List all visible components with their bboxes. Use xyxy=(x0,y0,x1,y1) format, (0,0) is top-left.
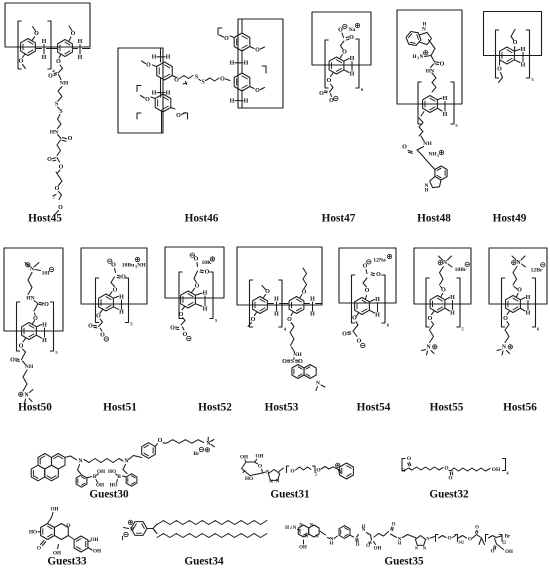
Host53 dansyl arm chain xyxy=(287,312,302,358)
Guest31 galactose ring xyxy=(242,462,263,476)
svg-text:Guest32: Guest32 xyxy=(429,489,469,501)
svg-text:O: O xyxy=(298,359,303,365)
svg-text:O: O xyxy=(47,157,52,163)
Host48 aromatic ring xyxy=(423,96,438,113)
svg-text:O: O xyxy=(366,544,370,549)
Host46 ethylene disulfide bridge xyxy=(172,75,230,86)
svg-text:3: 3 xyxy=(437,154,439,158)
Host46 left upper ring xyxy=(157,62,173,80)
svg-text:S: S xyxy=(291,359,294,365)
label Host46 xyxy=(185,213,219,225)
Host47 macrocycle box xyxy=(312,12,371,65)
svg-text:O: O xyxy=(440,62,445,68)
label Guest33 xyxy=(47,556,87,568)
svg-text:H: H xyxy=(398,541,402,546)
Host46 left bottom bracket marks xyxy=(137,113,188,119)
Host45 OMe groups on ring A xyxy=(19,27,40,69)
svg-text:O: O xyxy=(475,526,479,531)
Host47 aromatic ring xyxy=(329,57,344,74)
Host47 H labels xyxy=(344,56,355,78)
Host51 top carboxylate with Bu3NH+ xyxy=(108,257,147,293)
Host45 OMe group on ring B xyxy=(69,26,76,41)
svg-text:O: O xyxy=(170,326,175,332)
svg-text:O: O xyxy=(195,284,200,290)
svg-text:O: O xyxy=(342,332,347,338)
Host46 left lower ring OMe groups xyxy=(141,96,186,120)
svg-text:O: O xyxy=(158,438,163,444)
Host56 top propyl arm xyxy=(513,267,522,294)
svg-text:4: 4 xyxy=(506,471,508,476)
Guest30 pyrene-CH2-N xyxy=(65,456,83,465)
svg-text:O: O xyxy=(302,290,307,296)
Host47 bottom carboxylate arm xyxy=(319,73,338,104)
Host50 top butyl-amide arm xyxy=(26,273,49,323)
Host48 upper squiggle linker xyxy=(432,73,436,92)
Host50 H labels xyxy=(36,323,47,345)
Host46 left unit mid H-H bridge xyxy=(152,90,171,96)
Host53 butoxy group xyxy=(300,268,307,298)
svg-text:O: O xyxy=(19,344,24,350)
svg-text:O: O xyxy=(447,536,451,542)
svg-text:OH: OH xyxy=(492,467,501,473)
label Guest30 xyxy=(89,489,129,501)
svg-text:H: H xyxy=(152,90,157,96)
svg-text:OH: OH xyxy=(505,550,513,555)
svg-text:N: N xyxy=(130,527,134,533)
Host50 top trimethylammonium xyxy=(25,263,41,273)
svg-text:NH: NH xyxy=(293,352,302,358)
Host46 right lower ring OMe xyxy=(250,87,265,95)
Guest35 benzamide ring xyxy=(334,526,354,539)
Host51 H labels xyxy=(113,295,124,316)
svg-text:Host56: Host56 xyxy=(503,402,537,414)
Guest31 sugar OH groups xyxy=(240,454,266,482)
svg-text:OH: OH xyxy=(90,537,98,543)
svg-text:O: O xyxy=(66,523,70,529)
Host56 bottom propyl trimethylammonium xyxy=(497,294,518,356)
svg-text:OH: OH xyxy=(374,547,382,552)
svg-text:N: N xyxy=(420,54,424,60)
svg-text:N: N xyxy=(293,526,297,531)
Host49 aromatic ring xyxy=(500,47,515,64)
svg-text:Host53: Host53 xyxy=(265,402,299,414)
svg-text:OH: OH xyxy=(240,455,248,461)
Host45 right methylene bridge H labels xyxy=(74,39,91,61)
Guest33 pyranone O and C=O xyxy=(37,523,71,557)
Host51 aromatic ring xyxy=(99,294,114,311)
svg-text:Host46: Host46 xyxy=(185,213,219,225)
svg-text:Host52: Host52 xyxy=(198,402,232,414)
Host46 left lower ring xyxy=(155,94,171,112)
Host55 bottom propyl trimethylammonium xyxy=(422,294,443,356)
Host54 top carboxylate with 12Na+ xyxy=(363,254,392,294)
svg-text:H: H xyxy=(375,313,380,319)
svg-text:10Bu: 10Bu xyxy=(122,263,134,269)
svg-text:O: O xyxy=(224,36,229,42)
svg-text:N: N xyxy=(266,470,270,475)
svg-text:H: H xyxy=(362,524,366,529)
Guest32 second ester xyxy=(444,466,454,482)
Guest34 upper heptadecyl chain xyxy=(157,521,267,525)
Host50 macrocycle box xyxy=(4,248,63,331)
label Host47 xyxy=(322,213,356,225)
Host45 methylene bridge H labels xyxy=(37,39,58,61)
svg-text:H: H xyxy=(42,55,47,61)
Guest31 triazole-CH2-PEG xyxy=(279,466,333,477)
Host50 aromatic ring xyxy=(22,323,37,340)
svg-text:H: H xyxy=(166,55,171,61)
svg-text:12Na: 12Na xyxy=(373,258,386,264)
Host46 left upper H-H bridge xyxy=(152,55,171,61)
svg-text:H: H xyxy=(423,23,427,28)
Host56 counterion 12Br- xyxy=(531,263,545,274)
svg-text:O: O xyxy=(96,314,101,320)
svg-text:12Br: 12Br xyxy=(531,268,543,274)
svg-text:O: O xyxy=(376,272,381,278)
svg-text:O: O xyxy=(59,165,64,171)
svg-text:H: H xyxy=(119,310,124,316)
svg-text:OH: OH xyxy=(93,549,101,555)
Guest35 amide C=O xyxy=(356,524,366,549)
Guest34 iodide counterion xyxy=(121,532,128,542)
Host46 right unit spine xyxy=(241,19,243,108)
Host54 macrocycle box xyxy=(339,248,396,303)
svg-text:Guest33: Guest33 xyxy=(47,556,87,568)
svg-text:Na: Na xyxy=(349,27,356,33)
Host48 lower squiggle linker xyxy=(419,112,424,137)
Host48 H labels xyxy=(437,96,447,118)
svg-text:O: O xyxy=(48,74,53,80)
svg-text:O: O xyxy=(349,35,354,41)
svg-text:O: O xyxy=(468,537,472,543)
svg-text:O: O xyxy=(58,205,63,211)
svg-text:H: H xyxy=(203,307,208,313)
svg-text:O: O xyxy=(71,31,76,37)
Host53 middle H-H bridge xyxy=(267,297,288,318)
Host47 repeat brackets subscript 6 xyxy=(325,39,364,92)
Host48 macrocycle box xyxy=(397,10,462,104)
svg-text:O: O xyxy=(407,456,411,462)
svg-text:O: O xyxy=(290,469,294,475)
Host48 lower indole xyxy=(425,166,448,194)
svg-text:H: H xyxy=(42,338,47,344)
Host46 left macrocycle box xyxy=(118,48,163,133)
svg-text:O: O xyxy=(448,476,452,482)
svg-text:O: O xyxy=(174,78,179,84)
svg-text:O: O xyxy=(258,464,262,470)
label Host45 xyxy=(28,213,62,225)
Host54 bottom carboxylate arm xyxy=(342,296,366,348)
label Host51 xyxy=(103,402,137,414)
Host46 right upper ring xyxy=(234,33,250,51)
svg-text:H: H xyxy=(285,526,289,531)
Host49 ethoxy groups xyxy=(497,30,518,83)
svg-text:Host48: Host48 xyxy=(417,213,451,225)
svg-text:OH: OH xyxy=(255,454,263,460)
svg-text:NH: NH xyxy=(428,152,437,158)
Guest31 triazole ring xyxy=(266,470,280,486)
Host53 dimethylamino group xyxy=(316,381,325,391)
svg-text:O: O xyxy=(113,288,118,294)
svg-text:O: O xyxy=(220,77,225,83)
Host45 hydroquinone ring B xyxy=(58,40,73,57)
Guest32 pentamethylene chain 1 xyxy=(412,467,443,470)
svg-text:O: O xyxy=(401,468,405,474)
Guest30 right benzylboronic acid xyxy=(108,465,137,489)
svg-text:O: O xyxy=(19,59,24,65)
Host47 top carboxylate arm with Na+ xyxy=(338,23,360,58)
Guest32 terminal OH and closing bracket subscript 4 xyxy=(492,459,509,476)
svg-text:HO: HO xyxy=(29,530,37,536)
Host49 H labels xyxy=(514,47,525,69)
Host51 repeat brackets subscript 5 xyxy=(96,278,134,327)
Host53 left ring xyxy=(253,297,268,314)
Host55 repeat brackets subscript 5 xyxy=(426,278,464,332)
svg-text:O: O xyxy=(342,50,347,56)
Host55 aromatic ring xyxy=(430,296,445,313)
Host56 repeat brackets subscript 6 xyxy=(502,278,540,332)
svg-text:O: O xyxy=(513,40,518,46)
svg-text:Host50: Host50 xyxy=(18,402,52,414)
svg-text:142: 142 xyxy=(458,541,464,545)
Host49 macrocycle box xyxy=(484,12,542,56)
svg-text:O: O xyxy=(179,312,184,318)
Host52 H labels xyxy=(195,291,207,313)
svg-text:HN: HN xyxy=(50,130,58,136)
Guest32 first ester xyxy=(401,456,412,474)
Guest35 NH linker xyxy=(320,531,334,546)
svg-text:O: O xyxy=(37,546,41,552)
Guest30 N-benzyl to phenol ether xyxy=(129,438,163,460)
svg-text:H: H xyxy=(425,189,429,194)
svg-text:H: H xyxy=(350,72,355,78)
Host46 left mid bracket marks xyxy=(137,82,187,92)
svg-text:O: O xyxy=(352,316,357,322)
svg-text:O: O xyxy=(327,78,332,84)
svg-text:O: O xyxy=(194,257,199,263)
Host53 macrocycle box xyxy=(237,247,322,305)
label Host56 xyxy=(503,402,537,414)
Host45 repeat-unit brackets with subscript 4 xyxy=(18,21,55,74)
Host48 upper tryptophan arm xyxy=(412,40,444,75)
svg-text:O: O xyxy=(428,316,433,322)
Host56 aromatic ring xyxy=(506,296,521,313)
Host53 sulfonamide SO2 xyxy=(282,358,303,366)
label Guest32 xyxy=(429,489,469,501)
svg-text:HN: HN xyxy=(26,296,34,302)
svg-text:H: H xyxy=(244,61,249,67)
Host54 repeat brackets subscript 6 xyxy=(352,275,390,328)
Host55 macrocycle box xyxy=(414,248,471,304)
label Host48 xyxy=(417,213,451,225)
Host45 oligoethylene glycol tail xyxy=(53,170,63,215)
svg-text:O: O xyxy=(56,59,61,65)
svg-text:Host47: Host47 xyxy=(322,213,356,225)
Host46 right mid H-H bridge xyxy=(218,28,266,73)
svg-text:H: H xyxy=(244,98,249,104)
Host53 repeat brackets subscript 4 xyxy=(250,280,287,332)
svg-text:H: H xyxy=(230,98,235,104)
svg-text:O: O xyxy=(176,113,181,119)
Host48 upper indole xyxy=(406,23,431,46)
svg-text:O: O xyxy=(111,263,116,269)
svg-text:O: O xyxy=(517,288,522,294)
svg-text:O: O xyxy=(316,468,320,474)
Host46 right upper ring OMe groups xyxy=(220,35,265,54)
Host49 repeat brackets subscript 5 xyxy=(496,30,535,82)
svg-text:10I: 10I xyxy=(42,271,50,277)
Guest35 diaminopteridine xyxy=(285,522,319,551)
Host50 bottom arm xyxy=(10,344,34,404)
svg-text:Host51: Host51 xyxy=(103,402,137,414)
Host46 right lower ring xyxy=(234,73,250,91)
svg-text:O: O xyxy=(503,316,508,322)
svg-text:NH: NH xyxy=(137,263,146,269)
svg-text:N: N xyxy=(269,480,273,485)
label Guest35 xyxy=(384,556,424,568)
svg-text:O: O xyxy=(265,289,270,295)
svg-text:Host54: Host54 xyxy=(357,402,391,414)
svg-text:Host45: Host45 xyxy=(28,213,62,225)
Guest30 left benzylboronic acid xyxy=(76,465,105,489)
svg-text:10K: 10K xyxy=(202,260,213,266)
svg-text:O: O xyxy=(205,270,210,276)
svg-text:H: H xyxy=(526,311,531,317)
Guest30 pyrene xyxy=(31,454,65,481)
svg-text:O: O xyxy=(338,28,343,34)
svg-text:NH: NH xyxy=(25,364,34,370)
Host51 macrocycle box xyxy=(81,248,147,304)
Guest32 opening bracket xyxy=(402,459,405,471)
Host53 right H labels xyxy=(304,297,322,318)
svg-text:NH: NH xyxy=(423,141,432,147)
Host55 top trimethylammonium xyxy=(438,256,452,267)
label Host50 xyxy=(18,402,52,414)
svg-text:O: O xyxy=(356,543,360,548)
svg-text:O: O xyxy=(146,63,151,69)
Host51 bottom carboxylate arm xyxy=(88,292,112,342)
svg-text:Host55: Host55 xyxy=(430,402,464,414)
svg-text:O: O xyxy=(255,88,260,94)
Guest35 triazole xyxy=(408,535,431,551)
Guest34 lower heptadecyl chain xyxy=(157,534,267,538)
label Host53 xyxy=(265,402,299,414)
svg-text:O: O xyxy=(363,264,368,270)
svg-text:H: H xyxy=(521,63,526,69)
svg-text:O: O xyxy=(44,302,49,308)
svg-text:OH: OH xyxy=(50,507,58,513)
Guest34 branch point xyxy=(147,524,157,534)
Host55 counterion 10Br- xyxy=(455,262,470,273)
Host52 bottom carboxylate arm xyxy=(170,289,194,341)
label Host49 xyxy=(493,213,527,225)
label Host54 xyxy=(357,402,391,414)
svg-text:O: O xyxy=(68,136,73,142)
svg-text:O: O xyxy=(255,48,260,54)
Host48 lower tryptophan arm xyxy=(402,136,444,170)
svg-text:O: O xyxy=(287,317,292,323)
Guest35 ester to bromo chain xyxy=(468,526,513,556)
Host50 repeat brackets subscript 5 xyxy=(17,302,59,355)
Host46 right bottom H-H bridge xyxy=(230,98,249,104)
svg-text:O: O xyxy=(55,186,60,192)
Guest31 pyridinium xyxy=(333,463,353,479)
Guest32 pentamethylene chain 2 xyxy=(454,468,490,471)
Host52 top carboxylate with 10K+ xyxy=(190,253,215,290)
Host53 right ring xyxy=(289,297,304,314)
svg-text:10Br: 10Br xyxy=(455,267,467,273)
Host50 ring-O bonds xyxy=(23,321,35,343)
svg-text:Guest34: Guest34 xyxy=(184,556,224,568)
Host52 aromatic ring xyxy=(181,291,196,308)
Host55 H labels xyxy=(445,295,455,317)
Host54 H labels xyxy=(369,297,380,319)
Guest35 PEG segment with subscript 142 xyxy=(431,535,467,545)
svg-text:22: 22 xyxy=(502,541,506,545)
svg-text:N: N xyxy=(338,470,342,476)
svg-text:H: H xyxy=(310,312,315,318)
svg-text:H: H xyxy=(230,61,235,67)
Guest35 glutamate with COOH xyxy=(366,523,407,552)
svg-text:H: H xyxy=(330,541,334,546)
svg-text:H: H xyxy=(274,312,279,318)
label Host55 xyxy=(430,402,464,414)
svg-text:O: O xyxy=(444,466,448,472)
Host45 succinate ester xyxy=(47,135,73,171)
svg-text:H: H xyxy=(78,55,83,61)
svg-text:O: O xyxy=(319,91,324,97)
svg-text:N: N xyxy=(316,381,320,387)
Host56 H labels xyxy=(520,295,530,317)
svg-text:H: H xyxy=(443,112,448,118)
svg-text:NH: NH xyxy=(60,81,69,87)
svg-text:O: O xyxy=(365,288,370,294)
Host52 macrocycle box xyxy=(165,247,224,298)
svg-text:O: O xyxy=(88,324,93,330)
svg-text:H: H xyxy=(450,311,455,317)
svg-text:O: O xyxy=(491,550,495,555)
Guest33 chromone bicyclic xyxy=(41,524,69,540)
svg-text:O: O xyxy=(34,31,39,37)
Host53 dansyl naphthalene xyxy=(292,365,316,379)
svg-text:OH: OH xyxy=(299,546,307,551)
svg-text:HO: HO xyxy=(245,476,253,482)
Guest30 hexyloxy-trimethylammonium chain xyxy=(163,437,215,457)
Guest34 N-methylpyridinium xyxy=(124,520,148,535)
label Guest31 xyxy=(270,489,310,501)
Guest33 5-OH and 7-OH xyxy=(29,507,59,536)
Host56 macrocycle box xyxy=(489,248,547,304)
Host45 O-CH2-amide linker xyxy=(48,54,69,87)
Host46 left unit spine xyxy=(161,48,162,133)
svg-text:Br: Br xyxy=(505,535,511,540)
Host45 macrocycle box xyxy=(5,3,90,47)
svg-text:H: H xyxy=(152,55,157,61)
svg-text:HO: HO xyxy=(108,469,116,475)
Host52 repeat brackets subscript 5 xyxy=(179,272,218,323)
Guest33 catechol ring xyxy=(68,536,101,555)
svg-text:O: O xyxy=(282,359,287,365)
svg-text:Guest31: Guest31 xyxy=(270,489,310,501)
Host54 aromatic ring xyxy=(355,298,370,315)
Host45 hydroquinone ring A xyxy=(21,39,36,56)
Guest30 hexyl chain between amines xyxy=(84,459,129,465)
svg-text:O: O xyxy=(402,145,407,151)
Host53 left ring OMe groups xyxy=(248,286,270,327)
svg-text:Guest30: Guest30 xyxy=(89,489,129,501)
svg-text:O: O xyxy=(497,67,502,73)
svg-text:N: N xyxy=(362,528,366,533)
